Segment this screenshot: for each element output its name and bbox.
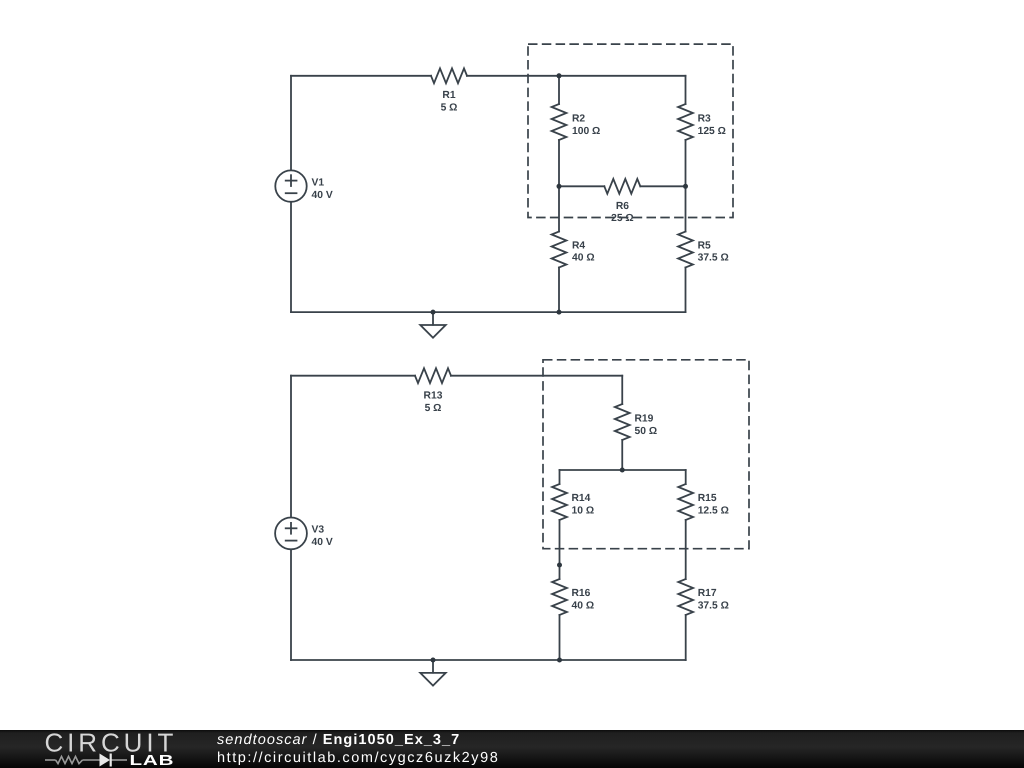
svg-text:25 Ω: 25 Ω — [611, 213, 634, 224]
title line — [217, 732, 460, 748]
junction ground node circuit 2 — [431, 658, 436, 663]
wire R17 to bottom rail — [685, 615, 687, 660]
svg-text:R5: R5 — [698, 240, 711, 251]
resistor R13 — [415, 368, 451, 383]
subcircuit dashed box 2 — [543, 360, 749, 549]
wire node D to R14 — [559, 470, 561, 484]
wire top-left horizontal (V1 top to R1) — [291, 75, 431, 77]
wire node C to R5 — [685, 186, 687, 231]
url line — [217, 750, 499, 766]
svg-text:50 Ω: 50 Ω — [635, 426, 658, 437]
wire top circuit 2 (V3 to R13) — [291, 375, 415, 377]
resistor R17 — [678, 579, 693, 615]
subcircuit dashed box 1 — [528, 44, 733, 217]
wire node B to R6 — [559, 185, 604, 187]
svg-text:100 Ω: 100 Ω — [572, 126, 600, 137]
wire bottom rail circuit 2 — [291, 659, 686, 661]
wire R16 to bottom rail — [559, 615, 561, 660]
footer bar — [0, 730, 1024, 768]
wire left rail upper (V1) — [290, 76, 292, 171]
svg-text:40 V: 40 V — [312, 537, 333, 548]
resistor R6 — [604, 179, 640, 194]
svg-text:R3: R3 — [698, 114, 711, 125]
resistor R1 — [431, 68, 467, 83]
svg-text:125 Ω: 125 Ω — [698, 126, 726, 137]
wire node B to R4 — [558, 186, 560, 231]
wire node A to R3 branch top — [559, 75, 686, 77]
resistor R16 — [552, 579, 567, 615]
wire R13 to R19 corner — [451, 375, 622, 377]
svg-text:40 V: 40 V — [312, 190, 333, 201]
svg-text:37.5 Ω: 37.5 Ω — [698, 253, 729, 264]
svg-text:5 Ω: 5 Ω — [425, 403, 442, 414]
svg-text:V3: V3 — [312, 524, 325, 535]
svg-text:37.5 Ω: 37.5 Ω — [698, 600, 729, 611]
junction node E — [557, 563, 562, 568]
voltage source V1 — [275, 170, 306, 201]
wire R2 to node B — [558, 140, 560, 186]
wire R3 to node C — [685, 140, 687, 186]
wire R15 to R17 — [685, 520, 687, 579]
wire R1 to node A — [467, 75, 559, 77]
resistor R3 — [678, 104, 693, 140]
junction node bottom rail circuit 2 — [557, 658, 562, 663]
junction node B — [557, 184, 562, 189]
resistor R2 — [552, 104, 567, 140]
junction node A — [557, 73, 562, 78]
svg-text:R14: R14 — [572, 493, 591, 504]
wire node E to R16 — [559, 565, 561, 579]
junction node C — [683, 184, 688, 189]
wire R6 to node C — [640, 185, 685, 187]
wire left rail upper (V3) — [290, 376, 292, 518]
junction node bottom rail circuit 1 — [557, 310, 562, 315]
junction node D — [620, 468, 625, 473]
svg-text:V1: V1 — [312, 178, 325, 189]
wire node D to R15 — [685, 470, 687, 484]
logo wire and resistor glyph — [45, 756, 127, 763]
svg-text:R13: R13 — [424, 390, 443, 401]
resistor R14 — [552, 484, 567, 520]
svg-text:R15: R15 — [698, 493, 717, 504]
svg-text:40 Ω: 40 Ω — [572, 253, 595, 264]
svg-text:R1: R1 — [442, 90, 455, 101]
svg-text:10 Ω: 10 Ω — [572, 506, 595, 517]
wire R3 branch top vertical — [685, 76, 687, 104]
resistor R4 — [552, 232, 567, 268]
resistor R15 — [678, 484, 693, 520]
junction ground node circuit 1 — [431, 310, 436, 315]
svg-text:R19: R19 — [635, 414, 654, 425]
svg-text:40 Ω: 40 Ω — [572, 600, 595, 611]
logo diode glyph — [100, 754, 111, 767]
ground circuit 1 — [420, 312, 445, 338]
wire R14 to node E — [559, 520, 561, 565]
svg-text:R4: R4 — [572, 240, 585, 251]
wire left rail lower (V3) — [290, 549, 292, 660]
wire R19 top vertical — [621, 376, 623, 404]
svg-text:R6: R6 — [616, 201, 629, 212]
CircuitLab logo — [0, 730, 200, 768]
wire R5 to bottom rail — [685, 268, 687, 313]
wire R4 to bottom rail — [558, 268, 560, 313]
wire bottom rail circuit 1 — [291, 311, 686, 313]
svg-text:5 Ω: 5 Ω — [441, 103, 458, 114]
svg-text:R17: R17 — [698, 588, 717, 599]
svg-text:LAB: LAB — [130, 753, 175, 768]
voltage source V3 — [275, 518, 307, 550]
wire node A to R2 — [558, 76, 560, 104]
resistor R19 — [615, 404, 630, 440]
svg-text:R2: R2 — [572, 114, 585, 125]
wire R19 to node D — [621, 440, 623, 470]
resistor R5 — [678, 232, 693, 268]
svg-text:R16: R16 — [572, 588, 591, 599]
ground circuit 2 — [420, 660, 445, 686]
wire node D horizontal — [560, 469, 686, 471]
svg-text:12.5 Ω: 12.5 Ω — [698, 506, 729, 517]
wire left rail lower (V1) — [290, 202, 292, 312]
